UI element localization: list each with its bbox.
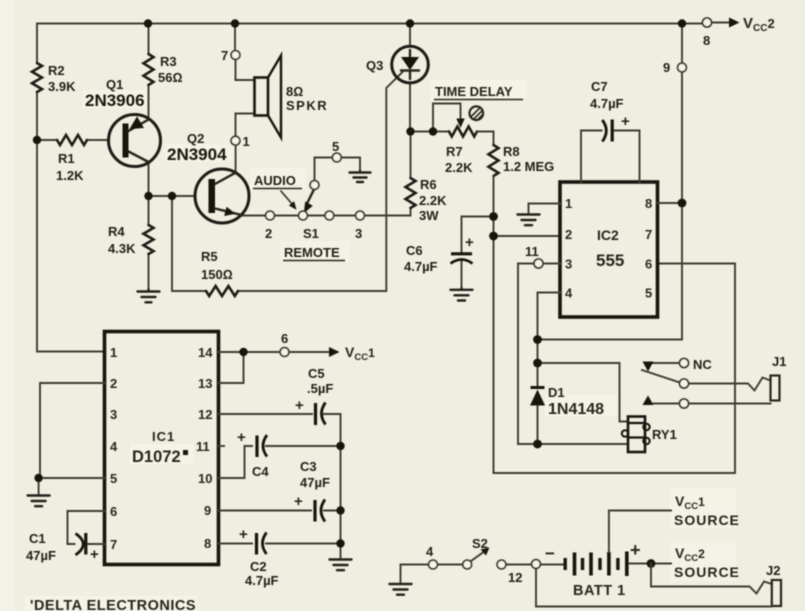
svg-text:SOURCE: SOURCE <box>674 564 740 580</box>
svg-text:C4: C4 <box>252 464 269 479</box>
svg-text:C6: C6 <box>406 243 423 258</box>
svg-text:D1072: D1072 <box>132 448 181 466</box>
svg-text:Q2: Q2 <box>187 131 204 146</box>
svg-text:3: 3 <box>565 257 572 272</box>
svg-text:D1: D1 <box>548 385 565 400</box>
svg-text:1.2 MEG: 1.2 MEG <box>503 159 554 174</box>
svg-text:AUDIO: AUDIO <box>254 173 296 188</box>
svg-text:12: 12 <box>508 570 522 585</box>
svg-text:C2: C2 <box>250 559 267 574</box>
svg-text:R6: R6 <box>420 177 437 192</box>
svg-text:56Ω: 56Ω <box>158 70 182 85</box>
svg-text:9: 9 <box>204 503 211 518</box>
svg-text:4: 4 <box>426 544 434 559</box>
svg-text:+: + <box>630 540 641 560</box>
svg-text:2.2K: 2.2K <box>419 193 447 208</box>
svg-text:IC1: IC1 <box>152 429 175 444</box>
svg-text:47µF: 47µF <box>26 548 56 563</box>
svg-text:14: 14 <box>198 345 213 360</box>
svg-text:8: 8 <box>204 536 211 551</box>
svg-text:8: 8 <box>645 196 652 211</box>
svg-text:1: 1 <box>243 134 250 149</box>
svg-text:J2: J2 <box>766 563 780 578</box>
svg-text:+: + <box>294 493 303 510</box>
svg-text:+: + <box>239 526 248 543</box>
svg-text:R1: R1 <box>58 151 75 166</box>
svg-text:6: 6 <box>645 257 652 272</box>
svg-text:J1: J1 <box>772 354 786 369</box>
svg-text:7: 7 <box>645 227 652 242</box>
svg-text:8Ω: 8Ω <box>286 84 303 99</box>
svg-text:−: − <box>545 544 555 563</box>
svg-text:R7: R7 <box>446 144 463 159</box>
svg-text:1N4148: 1N4148 <box>548 401 604 418</box>
svg-text:11: 11 <box>525 244 539 259</box>
svg-text:150Ω: 150Ω <box>201 267 233 282</box>
svg-text:10: 10 <box>198 471 212 486</box>
svg-text:6: 6 <box>110 504 117 519</box>
svg-text:SOURCE: SOURCE <box>674 512 740 528</box>
svg-text:C3: C3 <box>300 459 317 474</box>
svg-text:5: 5 <box>110 471 117 486</box>
svg-text:2: 2 <box>565 227 572 242</box>
svg-text:SPKR: SPKR <box>286 98 328 113</box>
svg-text:1: 1 <box>565 196 572 211</box>
svg-text:REMOTE: REMOTE <box>284 245 340 260</box>
svg-text:2N3904: 2N3904 <box>167 145 227 164</box>
svg-text:13: 13 <box>198 376 212 391</box>
svg-text:2.2K: 2.2K <box>445 160 473 175</box>
svg-text:47µF: 47µF <box>300 475 330 490</box>
svg-text:9: 9 <box>663 60 670 75</box>
svg-text:+: + <box>621 113 630 130</box>
svg-text:3.9K: 3.9K <box>48 79 76 94</box>
svg-text:C7: C7 <box>591 79 608 94</box>
svg-text:R8: R8 <box>503 144 520 159</box>
svg-text:.5µF: .5µF <box>307 381 333 396</box>
svg-text:4.3K: 4.3K <box>108 241 136 256</box>
svg-text:NC: NC <box>693 357 712 372</box>
svg-text:Q1: Q1 <box>106 77 123 92</box>
svg-text:R2: R2 <box>48 63 65 78</box>
svg-text:+: + <box>465 234 474 251</box>
svg-text:C1: C1 <box>29 531 46 546</box>
svg-text:R3: R3 <box>160 54 177 69</box>
svg-text:Q3: Q3 <box>366 58 383 73</box>
svg-text:R4: R4 <box>108 224 125 239</box>
svg-text:TIME DELAY: TIME DELAY <box>435 84 513 99</box>
svg-text:2: 2 <box>110 376 117 391</box>
svg-text:3: 3 <box>355 226 362 241</box>
svg-text:3: 3 <box>110 407 117 422</box>
svg-text:+: + <box>237 429 246 446</box>
svg-text:4: 4 <box>110 439 118 454</box>
svg-text:12: 12 <box>198 407 212 422</box>
svg-text:S2: S2 <box>472 536 488 551</box>
svg-text:RY1: RY1 <box>652 427 677 442</box>
svg-text:4.7µF: 4.7µF <box>404 259 438 274</box>
svg-text:555: 555 <box>596 251 624 270</box>
svg-text:5: 5 <box>332 139 339 154</box>
svg-text:S1: S1 <box>303 226 319 241</box>
svg-text:6: 6 <box>281 331 288 346</box>
svg-text:2: 2 <box>265 226 272 241</box>
svg-text:'DELTA ELECTRONICS: 'DELTA ELECTRONICS <box>30 598 196 611</box>
svg-text:+: + <box>295 397 304 414</box>
svg-text:7: 7 <box>221 48 228 63</box>
svg-text:2N3906: 2N3906 <box>85 91 145 110</box>
svg-text:1: 1 <box>110 345 117 360</box>
svg-text:C5: C5 <box>308 366 325 381</box>
svg-text:7: 7 <box>110 537 117 552</box>
svg-text:R5: R5 <box>201 249 218 264</box>
svg-text:1.2K: 1.2K <box>56 168 84 183</box>
svg-text:8: 8 <box>703 33 710 48</box>
svg-text:4.7µF: 4.7µF <box>245 573 279 588</box>
svg-text:5: 5 <box>645 286 652 301</box>
svg-text:4.7µF: 4.7µF <box>590 96 624 111</box>
svg-text:BATT 1: BATT 1 <box>573 583 626 599</box>
svg-text:11: 11 <box>196 439 210 454</box>
svg-text:4: 4 <box>565 286 573 301</box>
svg-text:+: + <box>90 546 99 563</box>
svg-text:3W: 3W <box>419 208 439 223</box>
svg-text:IC2: IC2 <box>597 227 619 243</box>
